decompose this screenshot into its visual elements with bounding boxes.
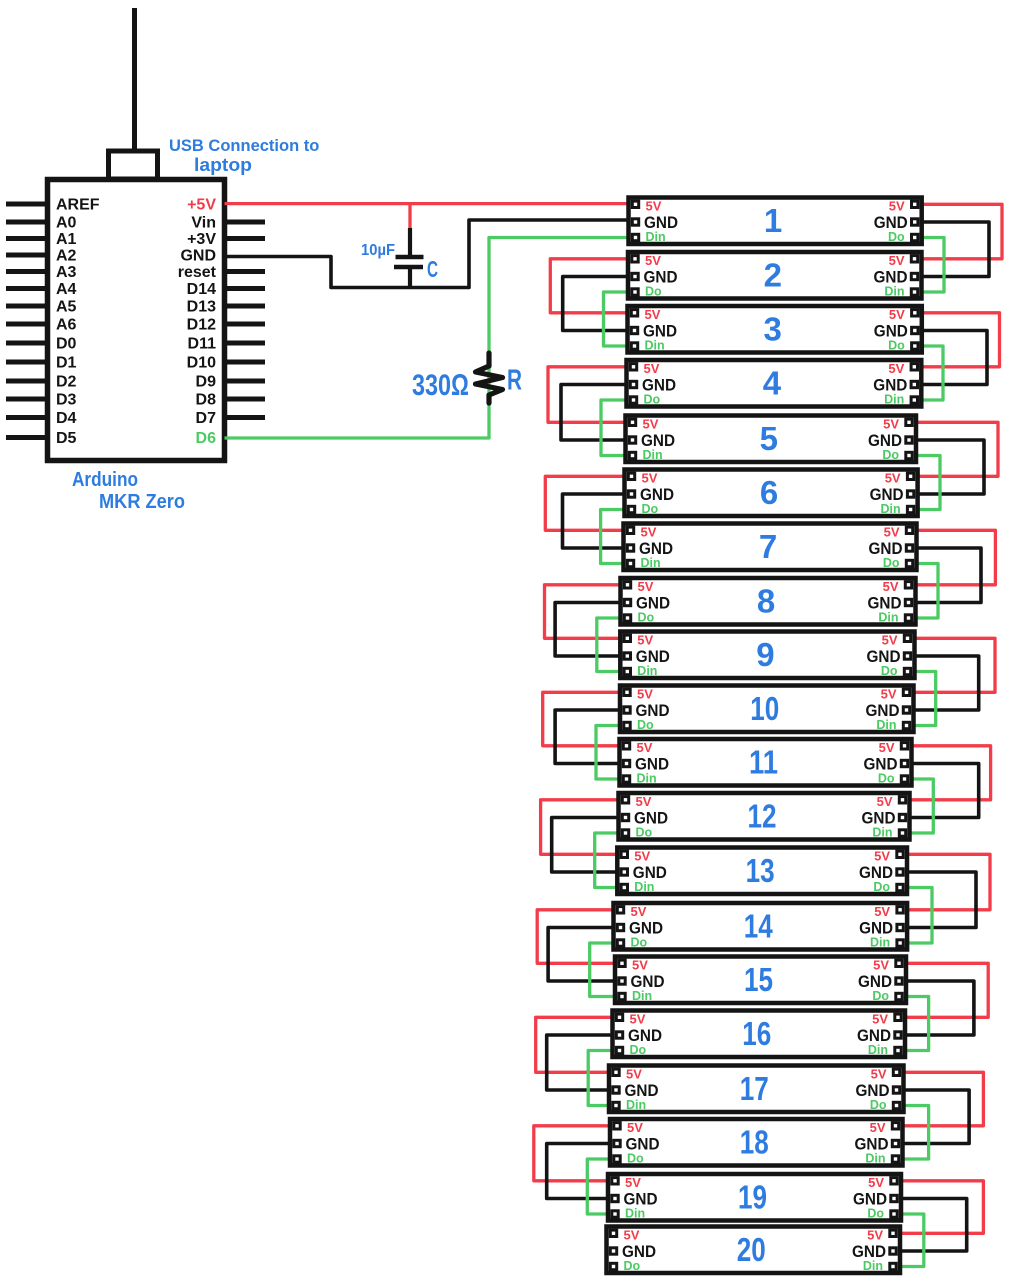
svg-text:5V: 5V <box>634 849 650 864</box>
pin A4 <box>6 281 77 298</box>
pin D9 <box>196 374 265 391</box>
strip 4 right pin Din <box>884 393 917 407</box>
strip 5 left pin 5V <box>629 417 658 432</box>
strip 10 left pin GND <box>624 701 670 720</box>
wire data Do strip16 to Din strip17 <box>588 1051 616 1106</box>
svg-text:Do: Do <box>881 664 898 678</box>
strip 9 left pin 5V <box>624 633 653 648</box>
strip 10 right pin Din <box>876 718 909 732</box>
svg-text:Do: Do <box>624 1259 641 1273</box>
svg-text:2: 2 <box>764 257 782 294</box>
svg-text:Do: Do <box>637 718 654 732</box>
wire data Do strip11 to Din strip12 <box>906 779 934 833</box>
svg-text:Do: Do <box>644 393 661 407</box>
strip 18 right pin Din <box>865 1152 898 1166</box>
strip 13 left pin Din <box>621 880 654 894</box>
strip 3 left pin GND <box>631 322 677 341</box>
svg-text:9: 9 <box>756 636 774 673</box>
wire data Do strip8 to Din strip9 <box>597 618 625 672</box>
svg-text:5V: 5V <box>645 307 661 322</box>
wire 5V strip4 to strip5 <box>548 367 631 423</box>
pin A0 <box>6 215 77 232</box>
strip 13 right pin Do <box>873 880 903 894</box>
svg-text:5V: 5V <box>624 1228 640 1243</box>
wire GND strip5 to strip6 <box>912 440 984 494</box>
wire 5V strip8 to strip9 <box>545 585 625 639</box>
svg-text:D13: D13 <box>187 299 216 316</box>
strip 13 right pin 5V <box>874 849 903 864</box>
wire data Do strip2 to Din strip3 <box>604 292 633 346</box>
strip 12 right pin Din <box>872 826 905 840</box>
strip 10 right pin GND <box>866 701 910 720</box>
svg-text:Din: Din <box>643 448 663 462</box>
svg-text:15: 15 <box>744 961 773 998</box>
strip 18 left pin GND <box>614 1135 660 1154</box>
svg-text:Do: Do <box>883 556 900 570</box>
strip 19 right pin 5V <box>868 1175 897 1190</box>
pin D7 <box>196 410 265 427</box>
svg-text:C: C <box>427 256 438 282</box>
svg-text:5V: 5V <box>871 1067 887 1082</box>
svg-text:Arduino: Arduino <box>72 469 138 491</box>
wire GND strip10 to strip11 <box>555 710 624 764</box>
strip 19 right pin Do <box>867 1207 897 1221</box>
wire data Do strip18 to Din strip19 <box>587 1159 614 1214</box>
wire GND strip14 to strip15 <box>548 928 619 982</box>
strip 15 right pin GND <box>858 972 902 991</box>
svg-text:5V: 5V <box>644 361 660 376</box>
svg-text:5V: 5V <box>889 253 905 268</box>
wire 5V strip13 to strip14 <box>903 854 990 910</box>
wire GND strip12 to strip13 <box>552 818 623 873</box>
pin D3 <box>6 392 77 409</box>
LED strip 13 <box>617 848 907 895</box>
svg-text:GND: GND <box>180 248 216 265</box>
strip 17 left pin 5V <box>613 1067 642 1082</box>
strip 20 right pin Din <box>863 1259 896 1273</box>
svg-text:A2: A2 <box>56 248 77 265</box>
strip 9 right pin GND <box>867 647 911 666</box>
svg-text:5V: 5V <box>867 1228 883 1243</box>
svg-text:1: 1 <box>764 202 782 239</box>
svg-text:Do: Do <box>638 611 655 625</box>
svg-text:A5: A5 <box>56 299 77 316</box>
svg-text:17: 17 <box>740 1070 769 1107</box>
svg-text:5V: 5V <box>883 579 899 594</box>
wire GND strip3 to strip4 <box>917 331 987 385</box>
svg-text:5V: 5V <box>874 849 890 864</box>
strip 6 left pin 5V <box>628 471 657 486</box>
strip 2 right pin GND <box>874 268 918 287</box>
svg-text:5: 5 <box>760 420 778 457</box>
svg-text:10: 10 <box>750 690 779 727</box>
svg-text:Din: Din <box>637 772 657 786</box>
strip 3 right pin GND <box>874 322 918 341</box>
svg-text:Din: Din <box>646 230 666 244</box>
pin D2 <box>6 374 77 391</box>
wire 5V strip7 to strip8 <box>912 530 996 585</box>
strip 5 left pin Din <box>629 448 662 462</box>
svg-text:Din: Din <box>641 556 661 570</box>
svg-text:12: 12 <box>748 798 777 835</box>
wire GND strip13 to strip14 <box>903 872 976 928</box>
LED strip 7 <box>624 524 917 571</box>
strip 4 right pin GND <box>873 376 917 395</box>
strip 6 right pin 5V <box>885 471 914 486</box>
svg-text:Din: Din <box>626 1098 646 1112</box>
LED strip 19 <box>608 1174 901 1221</box>
pin D12 <box>187 317 265 334</box>
strip 3 right pin Do <box>888 339 918 353</box>
svg-text:Din: Din <box>880 502 900 516</box>
strip 8 right pin Din <box>878 611 911 625</box>
wire 5V strip12 to strip13 <box>541 800 623 855</box>
svg-text:Din: Din <box>625 1207 645 1221</box>
svg-text:D9: D9 <box>196 374 217 391</box>
svg-text:D3: D3 <box>56 392 77 409</box>
LED strip 8 <box>621 578 916 625</box>
svg-text:D6: D6 <box>196 430 217 447</box>
wire data Do strip14 to Din strip15 <box>590 943 619 997</box>
capacitor C1 <box>394 204 424 289</box>
wire data Do strip12 to Din strip13 <box>595 833 623 888</box>
svg-text:MKR Zero: MKR Zero <box>99 491 185 513</box>
strip 4 left pin GND <box>630 376 676 395</box>
strip 7 right pin Do <box>883 556 913 570</box>
wire data Do strip15 to Din strip16 <box>901 997 929 1051</box>
wire 5V strip17 to strip18 <box>899 1072 984 1126</box>
strip 12 left pin GND <box>622 809 668 828</box>
svg-text:19: 19 <box>738 1179 767 1216</box>
svg-text:11: 11 <box>749 744 778 781</box>
svg-text:reset: reset <box>178 264 217 281</box>
svg-text:Do: Do <box>873 880 890 894</box>
wire GND strip7 to strip8 <box>912 548 982 603</box>
svg-text:+3V: +3V <box>187 231 216 248</box>
pin D11 <box>188 336 265 353</box>
svg-text:5V: 5V <box>643 417 659 432</box>
wire data Do strip5 to Din strip6 <box>912 456 940 510</box>
strip 14 right pin GND <box>859 919 903 938</box>
pin A6 <box>6 317 77 334</box>
svg-text:D0: D0 <box>56 336 77 353</box>
wire GND strip9 to strip10 <box>910 656 979 710</box>
wire GND strip2 to strip3 <box>563 277 632 331</box>
svg-text:Din: Din <box>634 880 654 894</box>
strip 9 right pin 5V <box>882 633 911 648</box>
strip 10 left pin 5V <box>624 687 653 702</box>
svg-text:5V: 5V <box>626 1067 642 1082</box>
svg-text:Do: Do <box>870 1098 887 1112</box>
strip 2 left pin GND <box>632 268 678 287</box>
pin GND <box>180 248 216 265</box>
strip 13 left pin GND <box>621 863 667 882</box>
pin reset <box>178 264 265 281</box>
svg-text:Do: Do <box>882 448 899 462</box>
svg-text:5V: 5V <box>625 1175 641 1190</box>
svg-text:5V: 5V <box>872 1012 888 1027</box>
svg-text:13: 13 <box>746 852 775 889</box>
svg-text:5V: 5V <box>636 794 652 809</box>
strip 20 right pin GND <box>852 1242 896 1261</box>
Arduino MKR Zero U1 <box>48 180 225 461</box>
strip 20 right pin 5V <box>867 1228 896 1243</box>
svg-text:A3: A3 <box>56 264 77 281</box>
pin D4 <box>6 410 77 427</box>
strip 14 left pin 5V <box>617 904 646 919</box>
LED strip 17 <box>609 1066 904 1113</box>
svg-text:Do: Do <box>872 989 889 1003</box>
pin D1 <box>6 355 77 372</box>
resistor R1 <box>476 353 503 403</box>
LED strip 20 <box>607 1227 901 1274</box>
label USB Connection to laptop <box>169 137 319 175</box>
wire 5V strip6 to strip7 <box>545 476 628 530</box>
svg-text:5V: 5V <box>879 740 895 755</box>
strip 8 left pin Do <box>624 611 654 625</box>
strip 6 left pin Do <box>628 502 658 516</box>
pin D13 <box>187 299 265 316</box>
strip 15 left pin 5V <box>619 958 648 973</box>
strip 6 right pin Din <box>880 502 913 516</box>
strip 2 left pin 5V <box>632 253 661 268</box>
strip 13 right pin GND <box>859 863 903 882</box>
LED strip 9 <box>620 632 914 679</box>
svg-text:5V: 5V <box>631 904 647 919</box>
strip 15 right pin Do <box>872 989 902 1003</box>
svg-text:5V: 5V <box>873 958 889 973</box>
strip 10 left pin Do <box>624 718 654 732</box>
svg-text:Do: Do <box>631 936 648 950</box>
svg-text:5V: 5V <box>889 199 905 214</box>
wire data Do strip3 to Din strip4 <box>917 346 943 400</box>
strip 19 left pin 5V <box>612 1175 641 1190</box>
strip 9 right pin Do <box>881 664 911 678</box>
strip 19 right pin GND <box>853 1190 897 1209</box>
svg-text:330Ω: 330Ω <box>412 369 469 402</box>
strip 3 left pin Din <box>631 339 664 353</box>
wire 5V strip3 to strip4 <box>917 313 999 367</box>
svg-text:A6: A6 <box>56 317 77 334</box>
strip 19 left pin GND <box>612 1190 658 1209</box>
svg-text:USB Connection to: USB Connection to <box>169 137 319 155</box>
svg-text:Do: Do <box>645 285 662 299</box>
strip 15 left pin Din <box>619 989 652 1003</box>
strip 4 left pin 5V <box>630 361 659 376</box>
LED strip 14 <box>614 903 908 950</box>
svg-text:AREF: AREF <box>56 197 100 214</box>
wire 5V strip5 to strip6 <box>912 422 998 476</box>
pin D14 <box>187 281 265 298</box>
svg-text:Din: Din <box>865 1152 885 1166</box>
strip 7 right pin 5V <box>884 525 913 540</box>
pin D6 <box>196 430 217 447</box>
wire GND strip1 to strip2 <box>918 222 990 277</box>
svg-text:D2: D2 <box>56 374 77 391</box>
wire GND strip4 to strip5 <box>561 385 631 441</box>
strip 7 right pin GND <box>869 539 913 558</box>
svg-text:R: R <box>507 365 522 397</box>
svg-text:laptop: laptop <box>194 155 252 175</box>
pin Vin <box>191 215 265 232</box>
svg-text:5V: 5V <box>888 361 904 376</box>
wire data Do strip4 to Din strip5 <box>601 400 631 456</box>
svg-text:Vin: Vin <box>191 215 216 232</box>
svg-text:Din: Din <box>645 339 665 353</box>
pin D8 <box>196 392 265 409</box>
strip 6 right pin GND <box>870 485 914 504</box>
svg-text:5V: 5V <box>884 525 900 540</box>
svg-text:5V: 5V <box>882 633 898 648</box>
svg-text:D4: D4 <box>56 410 77 427</box>
wire 5V strip1 to strip2 <box>918 204 1003 258</box>
strip 20 left pin Do <box>610 1259 640 1273</box>
strip 14 right pin 5V <box>874 904 903 919</box>
svg-text:5V: 5V <box>637 633 653 648</box>
strip 16 right pin GND <box>857 1026 901 1045</box>
strip 12 right pin 5V <box>877 794 906 809</box>
svg-text:5V: 5V <box>868 1175 884 1190</box>
svg-text:6: 6 <box>760 474 778 511</box>
svg-text:Din: Din <box>872 826 892 840</box>
strip 7 left pin 5V <box>627 525 656 540</box>
wire GND strip16 to strip17 <box>547 1035 617 1090</box>
strip 1 right pin 5V <box>889 199 918 214</box>
pin A1 <box>6 231 77 248</box>
svg-text:5V: 5V <box>637 687 653 702</box>
strip 17 right pin Do <box>870 1098 900 1112</box>
wire USB cable <box>132 8 137 152</box>
strip 2 right pin 5V <box>889 253 918 268</box>
strip 11 right pin 5V <box>879 740 908 755</box>
wire 5V strip16 to strip17 <box>536 1017 617 1072</box>
svg-text:+5V: +5V <box>187 197 216 214</box>
svg-text:Do: Do <box>630 1043 647 1057</box>
wire data D6 Arduino to R to strip1 Din <box>225 238 634 439</box>
strip 10 right pin 5V <box>881 687 910 702</box>
strip 5 right pin 5V <box>883 417 912 432</box>
svg-text:5V: 5V <box>638 579 654 594</box>
svg-text:14: 14 <box>744 908 774 945</box>
strip 16 left pin Do <box>616 1043 646 1057</box>
strip 17 left pin Din <box>613 1098 646 1112</box>
strip 18 left pin Do <box>614 1152 644 1166</box>
wire GND strip19 to strip20 <box>896 1199 967 1252</box>
pin D0 <box>6 336 77 353</box>
svg-text:Do: Do <box>627 1152 644 1166</box>
strip 19 left pin Din <box>612 1207 645 1221</box>
wire 5V strip11 to strip12 <box>906 746 991 800</box>
strip 15 left pin GND <box>619 972 665 991</box>
svg-text:Din: Din <box>863 1259 883 1273</box>
LED strip 16 <box>613 1011 906 1058</box>
wire 5V strip9 to strip10 <box>910 638 996 692</box>
strip 7 left pin Din <box>627 556 660 570</box>
wire GND strip15 to strip16 <box>901 981 974 1035</box>
wire 5V strip19 to strip20 <box>896 1181 983 1234</box>
strip 8 left pin 5V <box>624 579 653 594</box>
strip 16 left pin 5V <box>616 1012 645 1027</box>
svg-text:5V: 5V <box>877 794 893 809</box>
wire GND Arduino to strip1 <box>225 220 634 288</box>
strip 6 left pin GND <box>628 485 674 504</box>
wire data Do strip7 to Din strip8 <box>912 564 939 619</box>
strip 12 left pin 5V <box>622 794 651 809</box>
wire 5V strip2 to strip3 <box>550 259 632 313</box>
pin AREF <box>6 197 100 214</box>
strip 5 left pin GND <box>629 431 675 450</box>
svg-text:D5: D5 <box>56 430 77 447</box>
svg-text:Din: Din <box>884 285 904 299</box>
svg-text:10µF: 10µF <box>361 242 395 259</box>
strip 2 left pin Do <box>632 285 662 299</box>
strip 14 right pin Din <box>870 936 903 950</box>
pin A5 <box>6 299 77 316</box>
USB connector J1 <box>109 151 158 179</box>
svg-text:Din: Din <box>868 1043 888 1057</box>
wire data Do strip9 to Din strip10 <box>910 672 936 726</box>
strip 18 right pin GND <box>855 1135 899 1154</box>
svg-text:5V: 5V <box>630 1012 646 1027</box>
svg-text:D12: D12 <box>187 317 216 334</box>
wire GND strip11 to strip12 <box>906 764 979 818</box>
svg-text:Din: Din <box>884 393 904 407</box>
strip 16 right pin 5V <box>872 1012 901 1027</box>
strip 9 left pin Din <box>624 664 657 678</box>
svg-text:Din: Din <box>632 989 652 1003</box>
strip 20 left pin GND <box>610 1242 656 1261</box>
wire 5V strip10 to strip11 <box>543 692 624 746</box>
strip 11 left pin Din <box>623 772 656 786</box>
wire GND strip6 to strip7 <box>563 494 629 548</box>
wire 5V strip18 to strip19 <box>534 1126 614 1181</box>
strip 17 left pin GND <box>613 1081 659 1100</box>
svg-text:5V: 5V <box>641 525 657 540</box>
svg-text:5V: 5V <box>881 687 897 702</box>
svg-text:5V: 5V <box>645 253 661 268</box>
strip 17 right pin GND <box>856 1081 900 1100</box>
strip 9 left pin GND <box>624 647 670 666</box>
LED strip 18 <box>610 1119 903 1166</box>
wire GND strip17 to strip18 <box>899 1090 970 1144</box>
strip 15 right pin 5V <box>873 958 902 973</box>
strip 18 left pin 5V <box>614 1120 643 1135</box>
strip 11 right pin Do <box>878 772 908 786</box>
svg-text:5V: 5V <box>646 199 662 214</box>
LED strip 11 <box>620 739 912 786</box>
svg-text:Do: Do <box>888 339 905 353</box>
wire data Do strip10 to Din strip11 <box>596 726 624 780</box>
svg-text:5V: 5V <box>885 471 901 486</box>
svg-text:Din: Din <box>870 936 890 950</box>
svg-text:A4: A4 <box>56 281 77 298</box>
strip 1 right pin GND <box>874 213 918 232</box>
strip 12 left pin Do <box>622 826 652 840</box>
svg-text:A0: A0 <box>56 215 77 232</box>
svg-text:Do: Do <box>642 502 659 516</box>
svg-text:5V: 5V <box>889 307 905 322</box>
svg-text:D10: D10 <box>187 355 216 372</box>
strip 3 right pin 5V <box>889 307 918 322</box>
LED strip 3 <box>628 306 922 353</box>
LED strip 6 <box>625 470 918 517</box>
LED strip 4 <box>627 360 922 407</box>
LED strip 15 <box>615 957 906 1004</box>
svg-text:5V: 5V <box>642 471 658 486</box>
strip 11 right pin GND <box>864 755 908 774</box>
LED strip 5 <box>626 416 917 463</box>
LED strip 1 <box>629 198 922 245</box>
